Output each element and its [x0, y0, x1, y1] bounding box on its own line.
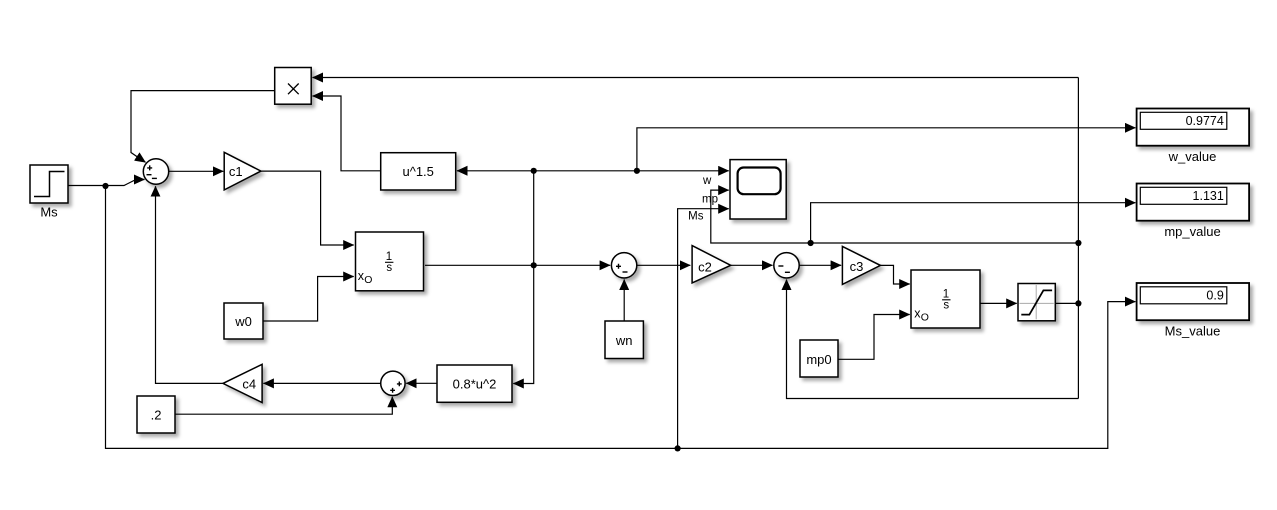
- node Ms junction: [102, 183, 108, 189]
- svg-text:u^1.5: u^1.5: [402, 164, 433, 179]
- wire w to w_value display: [637, 128, 1136, 171]
- power block u^1.5 (flipped): [381, 153, 456, 190]
- wire sum2 to gain c2: [637, 264, 691, 266]
- wire Ms output to sum1: [68, 185, 106, 187]
- svg-text:c1: c1: [229, 164, 243, 179]
- sum S2: [611, 253, 636, 278]
- wire w line to scope w input: [534, 170, 729, 172]
- sum S4: [381, 371, 405, 395]
- product block X (flipped): [275, 68, 312, 105]
- svg-text:Ms_value: Ms_value: [1165, 323, 1221, 338]
- wire sum1 to gain c1: [169, 170, 224, 172]
- node mp line junction: [808, 240, 814, 246]
- svg-text:s: s: [386, 262, 392, 274]
- wire wn to sum2 bottom input: [623, 280, 625, 322]
- wire sum4 output to gain c4: [263, 382, 380, 384]
- gain c3: [842, 246, 880, 284]
- svg-text:w_value: w_value: [1168, 149, 1217, 164]
- svg-text:mp_value: mp_value: [1164, 224, 1220, 239]
- scope block: [688, 160, 786, 223]
- svg-text:w: w: [702, 175, 712, 187]
- integrator I1: [356, 232, 424, 291]
- power block 0.8*u^2 (flipped): [437, 365, 512, 402]
- gain c2: [692, 246, 731, 283]
- svg-text:Ms: Ms: [688, 211, 704, 223]
- node w line junction 2: [634, 168, 640, 174]
- wire mp0 to integrator I2 x0 input: [838, 315, 910, 360]
- svg-text:c2: c2: [698, 260, 712, 275]
- wire mp trunk vertical: [1077, 78, 1079, 399]
- wire saturation output to trunk: [1055, 302, 1078, 304]
- wire w0 to integrator I1 x0 input: [263, 277, 354, 322]
- wire top line to product top input: [313, 77, 1079, 79]
- node trunk-sat junction: [1075, 300, 1081, 306]
- wire u^1.5 output to product bottom input: [313, 96, 381, 171]
- sum S3: [774, 253, 799, 278]
- constant wn: [605, 321, 643, 359]
- svg-text:O: O: [364, 274, 372, 286]
- wire c4 output to sum1 bottom input: [156, 186, 224, 383]
- svg-text:0.8*u^2: 0.8*u^2: [453, 377, 497, 392]
- gain c1: [224, 152, 261, 190]
- wire w line to u^1.5 input: [457, 170, 534, 172]
- step source Ms: [30, 165, 68, 220]
- display w_value: [1137, 109, 1250, 164]
- svg-text:.2: .2: [151, 408, 162, 423]
- wire product output to sum1 top input: [131, 91, 275, 163]
- svg-text:Ms: Ms: [40, 205, 58, 220]
- wire feedback to sum3 bottom input: [787, 280, 1079, 399]
- sum S1: [143, 159, 168, 184]
- svg-text:1.131: 1.131: [1193, 189, 1224, 203]
- wire bottom junction to scope Ms input: [678, 209, 729, 449]
- node trunk-mp junction: [1075, 240, 1081, 246]
- svg-text:c4: c4: [242, 377, 256, 392]
- svg-text:s: s: [943, 300, 949, 312]
- wire sum3 to gain c3: [799, 264, 841, 266]
- svg-text:mp0: mp0: [806, 352, 831, 367]
- integrator I2: [911, 270, 980, 328]
- node bottom wire junction: [675, 445, 681, 451]
- wire mp to mp_value display: [811, 203, 1136, 243]
- wire .2 to sum4 bottom input: [175, 397, 392, 414]
- svg-text:wn: wn: [615, 333, 633, 348]
- svg-text:c3: c3: [850, 259, 864, 274]
- constant mp0: [800, 340, 838, 377]
- wire c1 output to integrator I1: [261, 171, 354, 245]
- svg-text:O: O: [921, 311, 929, 323]
- svg-text:0.9774: 0.9774: [1186, 114, 1224, 128]
- wire w tap vertical to 0.8*u^2 input: [513, 171, 533, 384]
- wire integrator I2 to saturation: [980, 302, 1017, 304]
- wire mp line to scope mp input: [711, 190, 1079, 243]
- wire Ms bottom feedback to Ms_value display: [106, 186, 1136, 448]
- svg-text:0.9: 0.9: [1206, 289, 1223, 303]
- saturation block: [1018, 284, 1055, 321]
- node w tap: [531, 262, 537, 268]
- svg-text:w0: w0: [234, 314, 252, 329]
- display Ms_value: [1137, 283, 1250, 338]
- wire c2 to sum3: [731, 264, 773, 266]
- svg-text:mp: mp: [702, 193, 718, 205]
- display mp_value: [1137, 184, 1250, 239]
- constant .2: [137, 396, 175, 433]
- wire c3 to integrator I2: [880, 265, 909, 284]
- wire 0.8*u^2 output to sum4: [406, 382, 437, 384]
- node w line junction 1: [531, 168, 537, 174]
- gain c4 (flipped): [223, 364, 262, 402]
- wire integrator I1 output to sum2: [425, 264, 610, 266]
- constant w0: [224, 303, 263, 339]
